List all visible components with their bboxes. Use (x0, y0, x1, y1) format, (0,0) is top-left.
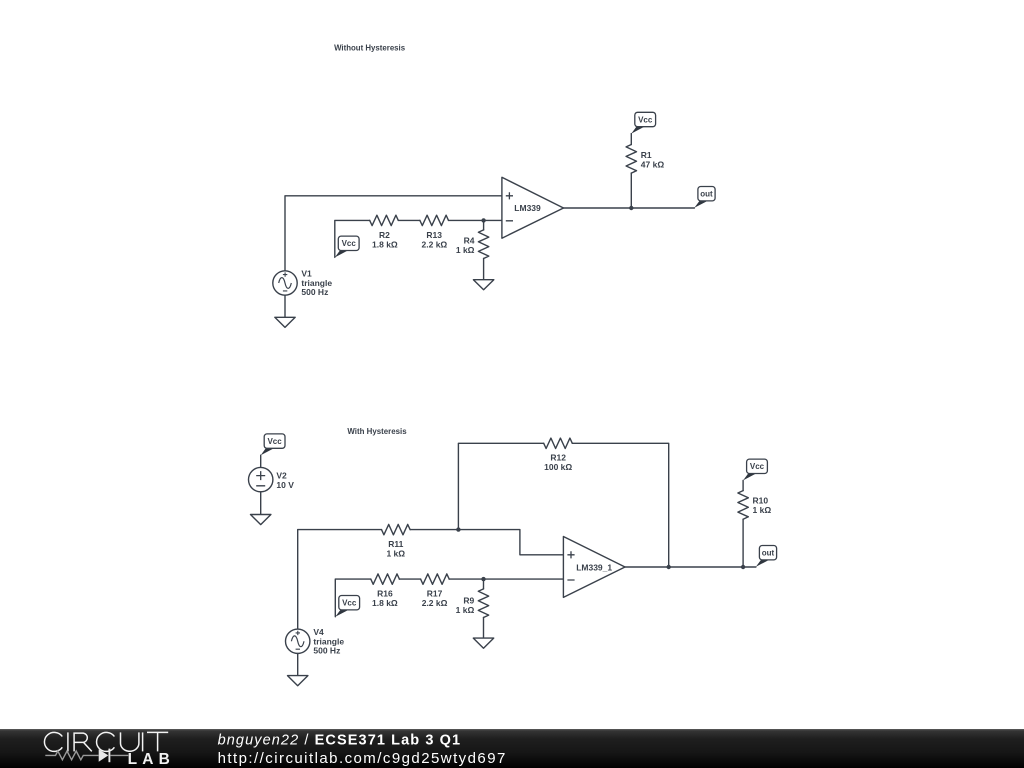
wire V4 up to R11 (298, 530, 382, 630)
wire R12 to output node (572, 443, 668, 567)
wire V4 to ground (297, 654, 299, 676)
node junction R13/R4 (481, 218, 485, 222)
wire Vcc to V2 (260, 455, 262, 467)
SCHEMATIC-TOP (273, 42, 715, 327)
wire V1 to + input (285, 196, 502, 271)
resistor R2 (370, 215, 399, 225)
node junction feedback/output (667, 565, 671, 569)
resistor R16 (371, 574, 400, 584)
footer bar (0, 729, 1024, 768)
voltage source V2 (249, 467, 295, 491)
resistor R1 (626, 145, 636, 174)
svg-text:1.8 kΩ: 1.8 kΩ (372, 239, 398, 249)
wire R1 to output node (630, 173, 632, 208)
wire R17 to - input (449, 578, 563, 580)
resistor R11 (382, 524, 411, 534)
svg-text:LM339_1: LM339_1 (576, 562, 612, 572)
wire V2 to ground (260, 492, 262, 515)
svg-text:100 kΩ: 100 kΩ (544, 462, 572, 472)
logo CIRCUIT wordmark (44, 732, 168, 751)
resistor R17 (421, 574, 450, 584)
svg-text:out: out (700, 190, 713, 199)
resistor R9 (478, 589, 488, 618)
ground below R4 (473, 280, 493, 290)
svg-text:1 kΩ: 1 kΩ (386, 548, 405, 558)
svg-text:47 kΩ: 47 kΩ (641, 160, 665, 170)
svg-text:With Hysteresis: With Hysteresis (347, 426, 406, 436)
svg-text:2.2 kΩ: 2.2 kΩ (422, 239, 448, 249)
node junction R10/output (741, 565, 745, 569)
resistor R13 (420, 215, 449, 225)
flag Vcc above R1 (631, 112, 655, 133)
wire R10 to output node (742, 519, 744, 567)
op-amp U1 LM339 (502, 177, 564, 238)
ground below V2 (251, 515, 271, 525)
wire junction to R4 (483, 220, 485, 230)
ground below V1 (275, 317, 295, 327)
svg-text:1 kΩ: 1 kΩ (753, 505, 772, 515)
node junction R1/out (629, 206, 633, 210)
svg-text:1.8 kΩ: 1.8 kΩ (372, 598, 398, 608)
wire R2 to R13 (398, 219, 420, 221)
flag Vcc above V2 (261, 434, 285, 455)
resistor R4 (478, 230, 488, 259)
svg-text:R10: R10 (753, 495, 769, 505)
wire op-amp output to out flag (564, 207, 695, 209)
svg-text:LM339: LM339 (514, 203, 541, 213)
svg-text:500 Hz: 500 Hz (313, 646, 340, 656)
flag Vcc left of R16 (335, 596, 359, 617)
wire R16 to R17 (399, 578, 420, 580)
flag out 2 (756, 546, 777, 567)
FOOTER (0, 729, 1024, 768)
svg-text:500 Hz: 500 Hz (301, 287, 328, 297)
op-amp U2 LM339_1 (563, 537, 625, 598)
SCHEMATIC-BOTTOM (249, 426, 777, 686)
svg-text:Vcc: Vcc (638, 115, 653, 124)
svg-text:1 kΩ: 1 kΩ (456, 605, 475, 615)
logo resistor symbol (45, 751, 98, 760)
svg-text:out: out (762, 549, 775, 558)
flag out (694, 187, 715, 208)
resistor R12 (544, 438, 573, 448)
svg-text:LAB: LAB (128, 751, 175, 768)
svg-text:Vcc: Vcc (267, 437, 282, 446)
wire Vcc to R2 (335, 220, 370, 257)
svg-text:bnguyen22 / ECSE371 Lab 3 Q1: bnguyen22 / ECSE371 Lab 3 Q1 (218, 733, 462, 749)
svg-text:1 kΩ: 1 kΩ (456, 245, 475, 255)
svg-text:10 V: 10 V (276, 480, 294, 490)
node junction R11/R12 (456, 527, 460, 531)
wire op-amp 2 output to out flag (625, 566, 756, 568)
wire R4 to ground (483, 259, 485, 280)
voltage source V4 (286, 627, 345, 656)
svg-text:Vcc: Vcc (342, 239, 357, 248)
ground below R9 (473, 638, 493, 648)
ground below V4 (288, 676, 308, 686)
wire junction to R9 (483, 579, 485, 589)
logo diode symbol (99, 749, 109, 762)
wire V1 to ground (284, 295, 286, 317)
wire Vcc to R10 (742, 480, 744, 490)
wire R11 to + input (410, 530, 563, 555)
svg-text:http://circuitlab.com/c9gd25wt: http://circuitlab.com/c9gd25wtyd697 (218, 750, 507, 767)
flag Vcc left (335, 236, 359, 257)
svg-text:Vcc: Vcc (750, 462, 765, 471)
svg-text:2.2 kΩ: 2.2 kΩ (422, 598, 448, 608)
svg-text:Without Hysteresis: Without Hysteresis (334, 42, 405, 52)
node junction R17/R9 (481, 577, 485, 581)
wire Vcc to R1 (630, 134, 632, 145)
wire Vcc to R16 (335, 579, 371, 617)
wire R9 to ground (483, 618, 485, 639)
wire R13 to - input (449, 219, 502, 221)
svg-text:Vcc: Vcc (342, 599, 357, 608)
flag Vcc above R10 (743, 459, 767, 480)
voltage source V1 (273, 268, 333, 297)
wire feedback left to R12 (458, 443, 543, 529)
resistor R10 (738, 491, 748, 520)
